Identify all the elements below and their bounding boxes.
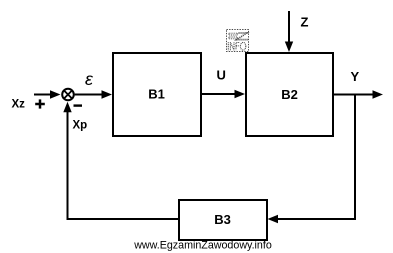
svg-text:U: U — [217, 68, 226, 83]
wire: summing junction to B1 — [75, 90, 112, 98]
wire: B1 to B2 — [202, 90, 245, 98]
svg-text:B3: B3 — [214, 212, 231, 227]
svg-text:B1: B1 — [148, 87, 165, 102]
svg-text:Xz: Xz — [12, 99, 26, 111]
summing junction — [62, 89, 74, 101]
minus sign — [74, 104, 83, 106]
block B2 — [246, 53, 333, 136]
wire: feedback branch down from Y line to B3 — [268, 95, 356, 224]
svg-text:B2: B2 — [281, 87, 298, 102]
block B1 — [113, 53, 201, 136]
plus sign — [35, 99, 45, 108]
svg-text:www.EgzaminZawodowy.info: www.EgzaminZawodowy.info — [133, 240, 272, 252]
wire: B2 output Y — [334, 90, 383, 98]
wire: B3 output left and up to summing junction — [63, 102, 179, 219]
EZ INFO watermark logo — [227, 30, 249, 52]
block B3 — [179, 200, 267, 240]
svg-text:ε: ε — [85, 69, 94, 89]
svg-text:Y: Y — [351, 69, 360, 84]
wire: input Xz to summing junction — [34, 90, 61, 98]
svg-text:Xp: Xp — [73, 120, 88, 132]
svg-text:Z: Z — [301, 15, 309, 30]
wire: Z disturbance into B2 top — [285, 11, 293, 52]
